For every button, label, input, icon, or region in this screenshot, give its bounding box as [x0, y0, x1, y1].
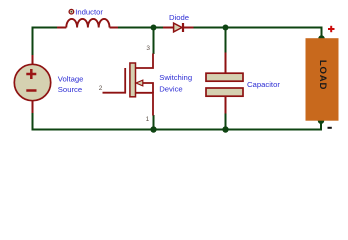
svg-text:3: 3	[146, 45, 150, 52]
switching device Q1 (MOSFET)	[103, 54, 154, 116]
junction node at source / bottom rail	[150, 126, 156, 132]
wire top-middle inductor to node 3 junction	[117, 27, 164, 29]
plus terminal	[328, 26, 335, 32]
diode D1	[163, 23, 194, 32]
junction node at load top	[318, 35, 324, 41]
channel bar	[130, 63, 136, 97]
svg-text:Device: Device	[159, 84, 183, 93]
capacitor C1	[206, 53, 243, 114]
inductor animation marker icon	[69, 9, 74, 14]
junction node at diode anode / drain	[151, 25, 157, 31]
svg-text:Switching: Switching	[159, 73, 192, 82]
svg-text:LOAD: LOAD	[317, 60, 328, 90]
svg-text:Capacitor: Capacitor	[247, 80, 280, 89]
wire top-left from source to inductor	[33, 28, 59, 57]
svg-text:Inductor: Inductor	[75, 8, 103, 17]
wire top-right diode to load	[193, 28, 322, 40]
wire mosfet source vertical	[153, 115, 155, 130]
junction node at diode cathode / capacitor top	[223, 25, 229, 31]
source lead pin 1	[136, 93, 154, 116]
inductor L1	[57, 19, 118, 28]
gate electrode line	[124, 68, 126, 94]
svg-text:2: 2	[99, 85, 103, 92]
wire capacitor top vertical	[225, 28, 227, 54]
svg-text:Voltage: Voltage	[58, 74, 84, 83]
wire mosfet drain vertical	[153, 28, 155, 55]
minus terminal	[328, 127, 332, 129]
svg-text:1: 1	[146, 116, 150, 123]
wire bottom rail	[33, 112, 322, 130]
load resistor	[306, 38, 339, 121]
junction node at capacitor bottom / bottom rail	[222, 126, 228, 132]
wire capacitor bottom vertical	[225, 113, 227, 130]
gate lead pin 2	[103, 92, 127, 94]
voltage source V1	[14, 55, 50, 113]
body arrow	[143, 83, 154, 93]
drain lead pin 3	[136, 54, 154, 69]
svg-text:Diode: Diode	[169, 13, 189, 22]
junction node at load bottom	[318, 118, 324, 124]
svg-text:Source: Source	[58, 85, 82, 94]
